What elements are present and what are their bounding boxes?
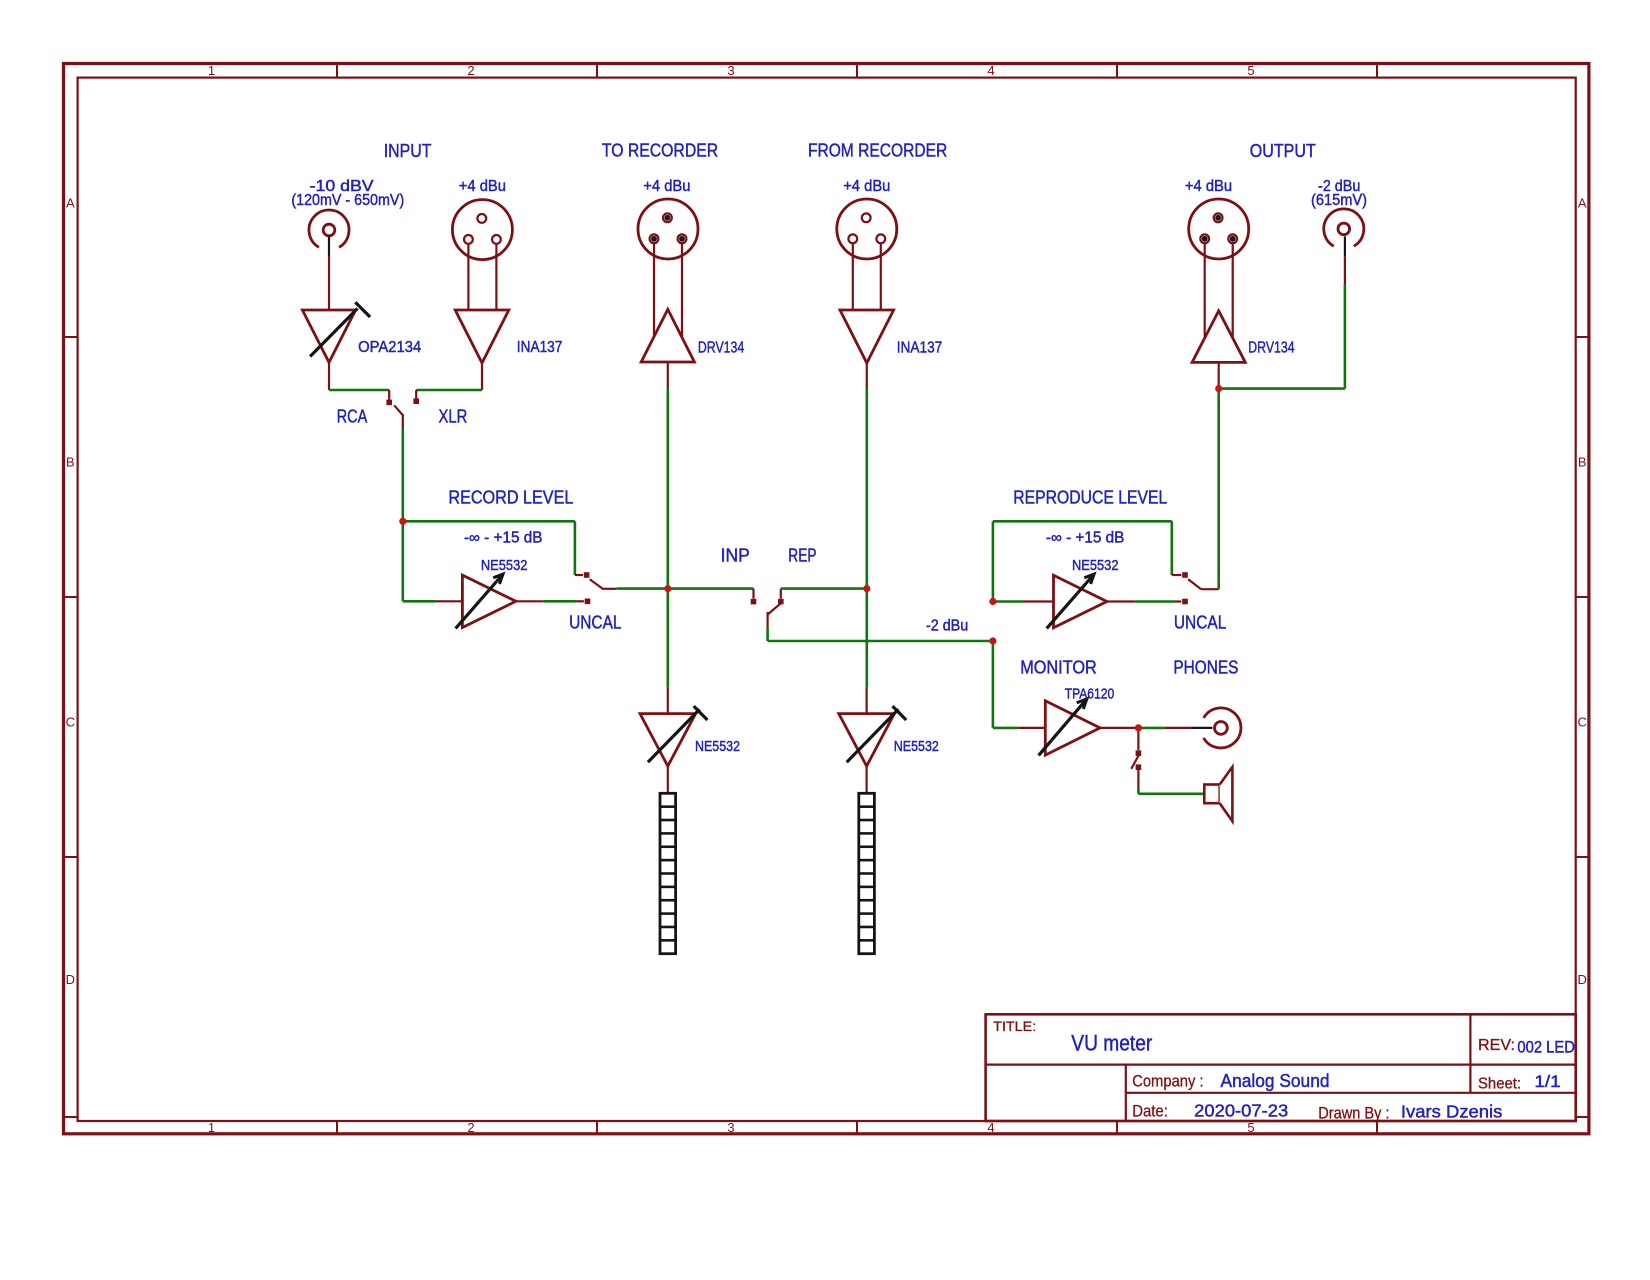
pins J6 to U10 — [1205, 244, 1233, 338]
pins J2 to U2 — [468, 244, 496, 309]
svg-text:2: 2 — [467, 1120, 474, 1135]
wire U2 out to switch SW1 — [416, 389, 482, 392]
meter amp label NE5532 (right) — [894, 739, 939, 755]
op-amp U meter driver NE5532 (right) — [839, 687, 895, 766]
wire to speaker — [1138, 787, 1204, 794]
svg-text:NE5532: NE5532 — [894, 739, 939, 755]
pin into U3 — [436, 600, 463, 602]
svg-text:REP: REP — [788, 544, 816, 565]
wire down to U3 input — [403, 521, 436, 601]
svg-text:INPUT: INPUT — [384, 140, 432, 161]
pin U9 output — [1100, 727, 1138, 729]
pin U5 output down — [866, 363, 868, 388]
label XLR — [439, 406, 468, 427]
pin U1 output down — [328, 362, 330, 390]
switch SW2 UNCAL (record) — [575, 572, 616, 604]
pin 1 RCA out (black) — [1344, 236, 1346, 256]
svg-text:MONITOR: MONITOR — [1020, 657, 1097, 678]
svg-text:RECORD LEVEL: RECORD LEVEL — [448, 486, 573, 507]
connector J4 XLR from recorder (female) — [837, 199, 897, 259]
svg-text:D: D — [1578, 972, 1587, 987]
label UNCAL (reproduce) — [1174, 612, 1226, 633]
svg-text:UNCAL: UNCAL — [569, 612, 621, 633]
op-amp U8 NE5532 reproduce level (variable) — [1054, 575, 1107, 627]
pin into U8 — [1024, 600, 1054, 602]
wire SW2 common to node — [616, 587, 753, 590]
svg-text:Ivars Dzenis: Ivars Dzenis — [1401, 1101, 1503, 1121]
label -2 dBu — [926, 618, 968, 635]
svg-text:(120mV - 650mV): (120mV - 650mV) — [291, 192, 404, 209]
connector J5 phones jack — [1204, 708, 1241, 748]
wire -2dBu node down to U9 — [993, 641, 1018, 728]
svg-text:REPRODUCE LEVEL: REPRODUCE LEVEL — [1013, 486, 1167, 507]
meter amp label NE5532 (left) — [695, 739, 740, 755]
line driver U10 DRV134 output — [1192, 311, 1245, 363]
pin into U9 — [1018, 727, 1045, 729]
junction phones node — [1135, 724, 1142, 731]
amplifier U5 INA137 from recorder — [840, 310, 894, 363]
connector J7 RCA output jack — [1324, 209, 1364, 246]
label TO RECORDER — [602, 140, 718, 161]
label RCA — [337, 406, 368, 427]
label MONITOR — [1020, 657, 1097, 678]
LED bargraph display (right) — [859, 793, 875, 953]
U3 gain arrow with head — [456, 574, 503, 628]
connector J6 XLR output (male) — [1189, 199, 1249, 259]
U1 label OPA2134 — [358, 339, 421, 356]
U2 label INA137 — [517, 339, 563, 356]
frame column ticks and numbers — [208, 63, 1377, 1135]
headphone amp U9 TPA6120 (variable) — [1045, 701, 1100, 755]
svg-text:3: 3 — [727, 1120, 734, 1135]
svg-text:1: 1 — [208, 63, 215, 78]
svg-text:TO RECORDER: TO RECORDER — [602, 140, 718, 161]
svg-text:B: B — [66, 455, 75, 470]
svg-text:+4 dBu: +4 dBu — [459, 178, 506, 195]
speaker LS1 — [1204, 767, 1232, 821]
LED bargraph display (left) — [660, 793, 676, 953]
U1 gain arrow (black) — [310, 302, 370, 356]
svg-text:Analog Sound: Analog Sound — [1221, 1070, 1330, 1091]
svg-text:TPA6120: TPA6120 — [1065, 686, 1115, 702]
svg-text:OPA2134: OPA2134 — [358, 339, 421, 356]
wire into U8 — [993, 600, 1024, 603]
U3 label NE5532 — [481, 558, 528, 574]
title block — [986, 1014, 1576, 1121]
svg-text:VU meter: VU meter — [1071, 1031, 1152, 1056]
label UNCAL (record) — [569, 612, 621, 633]
svg-text:INA137: INA137 — [517, 339, 563, 356]
svg-text:(615mV): (615mV) — [1311, 192, 1367, 209]
wire U9 to phones — [1138, 727, 1164, 730]
svg-text:A: A — [1578, 196, 1587, 211]
pin U8 output — [1107, 600, 1135, 602]
switch SW5 speaker enable — [1131, 728, 1141, 787]
junction reproduce input — [989, 598, 996, 605]
svg-text:INP: INP — [721, 544, 750, 565]
wire U1 out to switch SW1 — [329, 389, 389, 392]
svg-text:Date:: Date: — [1132, 1103, 1168, 1121]
label REP — [788, 544, 816, 565]
svg-text:INA137: INA137 — [897, 339, 943, 356]
svg-text:A: A — [66, 196, 75, 211]
junction from-recorder at REP node — [863, 585, 870, 592]
label OUTPUT — [1250, 140, 1316, 161]
J1 value labels -10 dBV (120mV - 650mV) — [291, 178, 404, 209]
switch SW3 INP/REP monitor source — [751, 589, 784, 628]
pin wire J1 to U1 — [328, 256, 330, 309]
svg-text:4: 4 — [987, 63, 994, 78]
wire U8 out to SW4 — [1135, 600, 1176, 603]
sheet outer border frame — [64, 64, 1589, 1134]
svg-text:C: C — [1578, 715, 1587, 730]
U5 label INA137 — [897, 339, 943, 356]
svg-text:1: 1 — [208, 1120, 215, 1135]
connector J3 XLR to recorder (male) — [638, 199, 698, 259]
svg-text:NE5532: NE5532 — [1072, 558, 1119, 574]
switch SW4 UNCAL (reproduce) — [1172, 572, 1219, 604]
svg-text:REV:: REV: — [1478, 1037, 1515, 1054]
U4 label DRV134 — [698, 339, 744, 356]
U8 label NE5532 — [1072, 558, 1119, 574]
line driver U4 DRV134 — [641, 309, 694, 362]
svg-text:FROM RECORDER: FROM RECORDER — [808, 140, 947, 161]
wire output node down to SW4 common — [1217, 389, 1220, 590]
svg-text:+4 dBu: +4 dBu — [843, 178, 890, 195]
svg-text:5: 5 — [1247, 63, 1254, 78]
svg-text:+4 dBu: +4 dBu — [643, 178, 690, 195]
J3 value label +4 dBu — [643, 178, 690, 195]
svg-text:TITLE:: TITLE: — [993, 1018, 1036, 1034]
wire REP contact to from-recorder line — [781, 587, 867, 590]
wire output node to RCA out — [1219, 285, 1345, 389]
svg-text:-2 dBu: -2 dBu — [926, 618, 968, 635]
wire to-recorder vertical — [666, 388, 669, 688]
label INP — [721, 544, 750, 565]
pins J4 to U5 — [853, 244, 881, 309]
pin 1 of J1 (black) — [328, 236, 330, 256]
pin phone jack long — [1165, 727, 1191, 729]
svg-text:OUTPUT: OUTPUT — [1250, 140, 1316, 161]
U9 gain arrow with head — [1039, 699, 1087, 756]
pin to LED bar (right) — [865, 766, 867, 793]
label INPUT — [384, 140, 432, 161]
switch SW1 RCA/XLR select — [386, 390, 419, 428]
svg-text:B: B — [1578, 455, 1587, 470]
wire U3 out to SW2 — [544, 600, 577, 603]
pin U3 output — [516, 600, 544, 602]
svg-text:Drawn By :: Drawn By : — [1318, 1104, 1389, 1122]
pin 1 phone jack (black) — [1191, 727, 1212, 729]
pins J3 to U4 — [654, 244, 682, 338]
junction at to-recorder line — [664, 585, 671, 592]
meter amp gain arrow (right) — [847, 706, 907, 762]
pin U2 output down — [481, 363, 483, 390]
svg-text:PHONES: PHONES — [1173, 657, 1238, 678]
svg-text:DRV134: DRV134 — [1248, 339, 1294, 356]
svg-text:-∞ - +15 dB: -∞ - +15 dB — [464, 530, 543, 547]
U9 label TPA6120 — [1065, 686, 1115, 702]
svg-text:DRV134: DRV134 — [698, 339, 744, 356]
label FROM RECORDER — [808, 140, 947, 161]
wire SW3 common to -2dBu node — [768, 628, 993, 641]
J2 value label +4 dBu — [459, 178, 506, 195]
svg-text:D: D — [66, 972, 75, 987]
svg-text:NE5532: NE5532 — [481, 558, 528, 574]
wire SW1 common down — [401, 428, 404, 521]
U8 gain arrow with head — [1047, 574, 1094, 628]
pin RCA out — [1344, 256, 1346, 284]
svg-text:NE5532: NE5532 — [695, 739, 740, 755]
label -inf - +15 dB — [464, 530, 543, 547]
connector J2 XLR input (female) — [452, 200, 512, 260]
amplifier U2 INA137 input receiver — [455, 310, 509, 363]
wire from-recorder vertical — [865, 388, 868, 688]
svg-text:2: 2 — [467, 63, 474, 78]
label -inf - +15 dB (reproduce) — [1046, 530, 1125, 547]
label RECORD LEVEL — [448, 486, 573, 507]
svg-text:002 LED: 002 LED — [1517, 1039, 1575, 1057]
svg-text:Sheet:: Sheet: — [1478, 1075, 1521, 1092]
meter amp gain arrow (left) — [648, 706, 708, 762]
junction output node — [1215, 385, 1222, 392]
svg-text:1/1: 1/1 — [1534, 1072, 1560, 1091]
op-amp U1 OPA2134 (variable gain) — [302, 310, 355, 362]
svg-text:Company :: Company : — [1132, 1072, 1203, 1090]
pin to LED bar (left) — [667, 766, 669, 793]
U10 label DRV134 — [1248, 339, 1294, 356]
label PHONES — [1173, 657, 1238, 678]
op-amp U meter driver NE5532 (left) — [640, 687, 696, 766]
junction -2dBu node — [989, 637, 996, 644]
wire reproduce bypass loop — [993, 521, 1172, 601]
label REPRODUCE LEVEL — [1013, 486, 1167, 507]
svg-text:XLR: XLR — [439, 406, 468, 427]
svg-text:+4 dBu: +4 dBu — [1185, 178, 1232, 195]
J6 value label +4 dBu — [1185, 178, 1232, 195]
J4 value label +4 dBu — [843, 178, 890, 195]
junction record level input — [399, 518, 406, 525]
svg-text:RCA: RCA — [337, 406, 368, 427]
pin U10 input down — [1218, 362, 1220, 388]
svg-text:2020-07-23: 2020-07-23 — [1194, 1101, 1288, 1121]
svg-text:UNCAL: UNCAL — [1174, 612, 1226, 633]
pin U4 input down — [667, 362, 669, 388]
connector J1 RCA input jack — [309, 210, 349, 247]
svg-text:3: 3 — [727, 63, 734, 78]
frame row ticks and letters — [64, 196, 1589, 1118]
title block texts — [993, 1018, 1575, 1123]
wire record bypass loop — [403, 521, 575, 575]
J7 value labels -2 dBu (615mV) — [1311, 178, 1367, 209]
svg-text:C: C — [66, 715, 75, 730]
op-amp U3 NE5532 record level (variable) — [462, 575, 515, 627]
svg-text:-∞ - +15 dB: -∞ - +15 dB — [1046, 530, 1125, 547]
